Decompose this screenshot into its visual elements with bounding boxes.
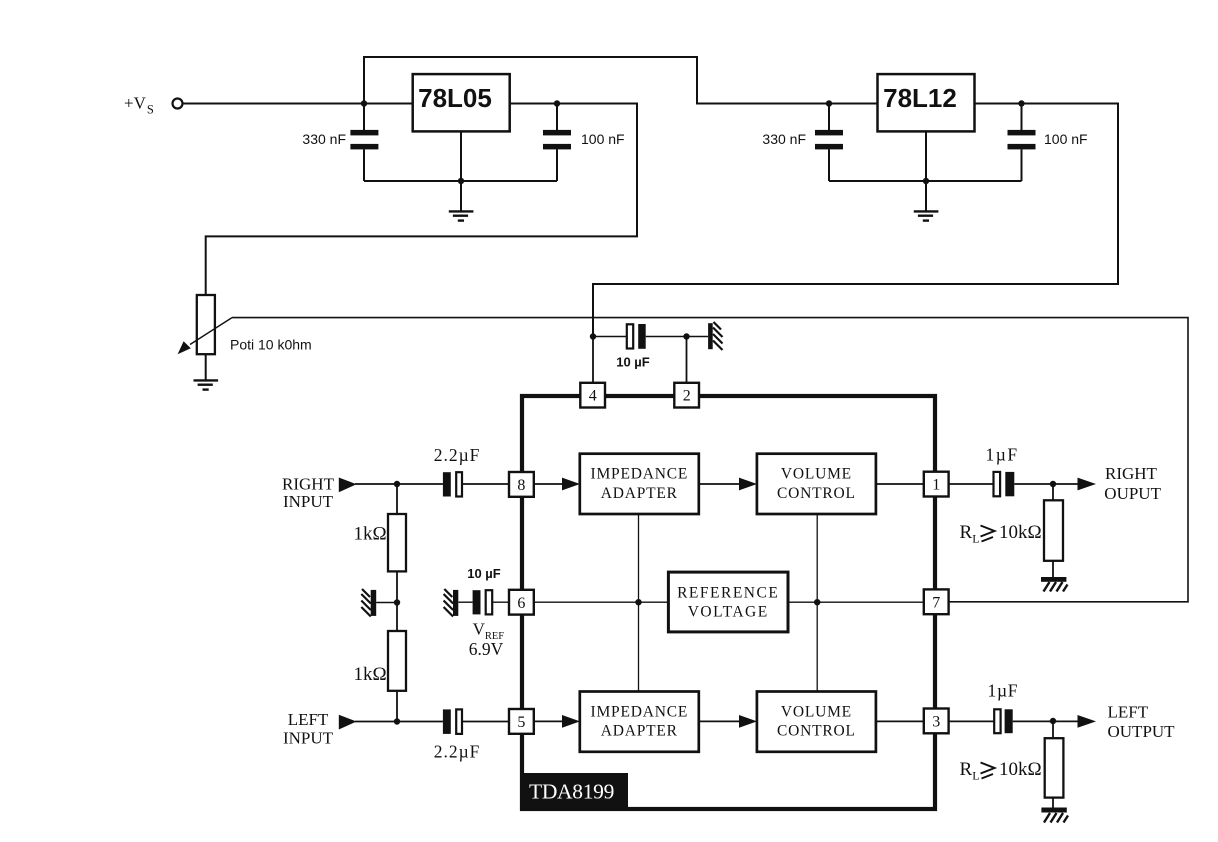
svg-text:ADAPTER: ADAPTER bbox=[601, 485, 678, 502]
svg-text:2.2µF: 2.2µF bbox=[434, 742, 481, 762]
block volume control top bbox=[757, 454, 876, 514]
chassis ground R3 bbox=[1041, 577, 1068, 592]
resistor R1 1k bbox=[388, 484, 406, 571]
wire top loop from input junction over 78L05 to 78L12 input bbox=[364, 57, 878, 104]
node junction right output bbox=[1050, 481, 1056, 487]
svg-text:OUPUT: OUPUT bbox=[1104, 484, 1161, 503]
wire volume control 1 to volume control 2 vertical bbox=[816, 514, 818, 692]
capacitor C4 100nF bbox=[1008, 104, 1036, 182]
svg-text:1kΩ: 1kΩ bbox=[353, 524, 386, 545]
regulator U2 78L12 bbox=[878, 74, 975, 131]
svg-text:1µF: 1µF bbox=[988, 681, 1019, 701]
wire volume control to pin3 bbox=[876, 720, 924, 722]
pin 2 bbox=[674, 383, 699, 408]
wire right input to cap bbox=[355, 483, 443, 485]
node junction left input bbox=[394, 718, 400, 724]
svg-text:2.2µF: 2.2µF bbox=[434, 445, 481, 465]
wire pin8 to impedance adapter arrow bbox=[534, 483, 564, 485]
svg-text:330 nF: 330 nF bbox=[762, 131, 806, 147]
wire chassis ground to cap C8 bbox=[458, 601, 472, 603]
potentiometer P1 wiper arrow bbox=[178, 318, 232, 355]
node junction 100nF left bbox=[554, 100, 560, 106]
node junction pin4 net bbox=[590, 333, 596, 339]
chassis ground R4 bbox=[1041, 808, 1068, 823]
svg-text:RIGHT: RIGHT bbox=[282, 475, 335, 494]
wire pin5 to impedance adapter arrow bbox=[534, 720, 564, 722]
wire cap C8 to pin6 bbox=[492, 601, 509, 603]
svg-text:5: 5 bbox=[517, 714, 525, 731]
capacitor C10 1uF polarized bbox=[994, 709, 1012, 733]
svg-text:4: 4 bbox=[589, 388, 597, 405]
label R4 RL >= 10kOhm bbox=[960, 759, 1042, 783]
capacitor C8 10uF polarized bbox=[473, 590, 493, 614]
svg-text:2: 2 bbox=[683, 388, 691, 405]
svg-text:REFERENCE: REFERENCE bbox=[677, 584, 779, 601]
svg-text:1kΩ: 1kΩ bbox=[353, 664, 386, 685]
label R3 RL >= 10kOhm bbox=[960, 522, 1042, 546]
IC U3 TDA8199 border bbox=[522, 396, 935, 809]
potentiometer P1 body bbox=[197, 295, 215, 354]
arrow left input bbox=[339, 715, 357, 730]
ground U1 bbox=[449, 211, 474, 220]
chassis ground at pin6 cap bbox=[444, 589, 459, 617]
wire R1 to R2 bbox=[396, 571, 398, 631]
svg-text:6: 6 bbox=[517, 595, 525, 612]
resistor R4 load 10k bbox=[1045, 721, 1064, 807]
svg-text:10kΩ: 10kΩ bbox=[999, 522, 1042, 543]
node +VS terminal bbox=[173, 99, 183, 109]
pin 5 bbox=[509, 709, 534, 734]
capacitor C9 1uF polarized bbox=[994, 472, 1015, 496]
svg-text:INPUT: INPUT bbox=[283, 729, 334, 748]
wire cap C10 to left output arrow bbox=[1013, 720, 1079, 722]
svg-text:ADAPTER: ADAPTER bbox=[601, 723, 678, 740]
node junction left output bbox=[1050, 718, 1056, 724]
wire 78L12 ground rail bbox=[829, 180, 1022, 182]
wire impedance adapter 1 to impedance adapter 2 vertical bbox=[638, 514, 640, 692]
svg-text:6.9V: 6.9V bbox=[469, 639, 504, 659]
svg-text:1: 1 bbox=[932, 477, 940, 494]
capacitor C1 330nF bbox=[350, 104, 378, 182]
wire left input to cap bbox=[355, 721, 443, 723]
svg-text:1µF: 1µF bbox=[986, 445, 1019, 465]
svg-text:100 nF: 100 nF bbox=[581, 131, 625, 147]
wire cap C9 to right output arrow bbox=[1014, 483, 1079, 485]
wire 78L05 ground rail bbox=[364, 180, 557, 182]
node junction right input bbox=[394, 481, 400, 487]
wire impedance adapter to volume control arrow bbox=[699, 483, 741, 485]
svg-text:LEFT: LEFT bbox=[1108, 703, 1149, 722]
block impedance adapter bottom bbox=[580, 692, 699, 752]
capacitor C2 100nF bbox=[543, 104, 571, 182]
svg-text:VOLTAGE: VOLTAGE bbox=[688, 604, 769, 621]
node junction rail U2 bbox=[923, 178, 929, 184]
wire poti wiper to pin7 bbox=[232, 318, 1188, 602]
svg-text:LEFT: LEFT bbox=[288, 710, 329, 729]
svg-text:78L05: 78L05 bbox=[418, 83, 492, 113]
node junction ref left bbox=[635, 599, 641, 605]
svg-text:10 µF: 10 µF bbox=[616, 355, 650, 370]
svg-text:7: 7 bbox=[932, 594, 940, 611]
pin 8 bbox=[509, 472, 534, 497]
wire junction to pin4 bbox=[592, 337, 594, 384]
node junction 100nF right bbox=[1018, 100, 1024, 106]
block reference voltage bbox=[668, 572, 788, 632]
wire impedance adapter to volume control arrow bottom bbox=[699, 720, 741, 722]
pin 7 bbox=[924, 589, 949, 614]
regulator U1 78L05 bbox=[413, 74, 510, 131]
capacitor C5 10uF polarized bbox=[627, 324, 646, 349]
svg-text:IMPEDANCE: IMPEDANCE bbox=[590, 703, 688, 720]
arrow left output bbox=[1078, 715, 1097, 728]
wire chassis ground to junction bbox=[376, 602, 397, 604]
wire pin6 to reference voltage bbox=[534, 601, 669, 603]
wire junction to pin2 bbox=[686, 337, 688, 384]
wire reference voltage to pin7 bbox=[788, 601, 924, 603]
svg-text:CONTROL: CONTROL bbox=[777, 485, 856, 502]
wire +VS to 78L05 input bbox=[183, 103, 413, 105]
block volume control bottom bbox=[757, 692, 876, 752]
arrow right input bbox=[339, 478, 357, 493]
pin 4 bbox=[580, 383, 605, 408]
wire junction to cap C5 bbox=[593, 336, 627, 338]
node junction ref right bbox=[814, 599, 820, 605]
resistor R3 load 10k bbox=[1044, 484, 1063, 577]
node junction at 330nF left cap bbox=[361, 100, 367, 106]
arrow right output bbox=[1078, 478, 1097, 491]
wire 78L12 gnd pin bbox=[925, 131, 927, 211]
wire cap C7 to pin5 bbox=[462, 721, 509, 723]
svg-text:330 nF: 330 nF bbox=[302, 131, 346, 147]
svg-text:8: 8 bbox=[517, 477, 525, 494]
wire cap C5 to chassis ground bbox=[646, 336, 708, 338]
node junction R1 R2 bbox=[394, 599, 400, 605]
wire poti bottom to ground bbox=[205, 354, 207, 380]
label TDA8199 bbox=[520, 773, 628, 811]
svg-text:INPUT: INPUT bbox=[283, 492, 334, 511]
block impedance adapter top bbox=[580, 454, 699, 514]
capacitor C7 2.2uF bbox=[443, 709, 462, 734]
svg-text:TDA8199: TDA8199 bbox=[529, 780, 614, 804]
pin 1 bbox=[924, 472, 949, 497]
capacitor C3 330nF bbox=[815, 104, 843, 182]
chassis ground at R1 R2 junction bbox=[361, 589, 376, 617]
wire 78L05 output to poti feed corner bbox=[206, 104, 637, 296]
resistor R2 1k bbox=[388, 631, 406, 691]
ground U2 bbox=[914, 211, 939, 220]
svg-text:VOLUME: VOLUME bbox=[781, 703, 852, 720]
wire R2 to left input node bbox=[396, 691, 398, 722]
capacitor C6 2.2uF bbox=[443, 472, 462, 496]
node junction rail U1 bbox=[458, 178, 464, 184]
svg-text:CONTROL: CONTROL bbox=[777, 723, 856, 740]
svg-text:Poti 10 k0hm: Poti 10 k0hm bbox=[230, 337, 312, 353]
svg-text:VOLUME: VOLUME bbox=[781, 466, 852, 483]
svg-text:10kΩ: 10kΩ bbox=[999, 759, 1042, 780]
svg-text:10 µF: 10 µF bbox=[467, 566, 501, 581]
svg-text:100 nF: 100 nF bbox=[1044, 131, 1088, 147]
svg-text:RIGHT: RIGHT bbox=[1105, 464, 1158, 483]
wire pin1 to cap C9 bbox=[949, 483, 993, 485]
svg-text:78L12: 78L12 bbox=[883, 83, 957, 113]
chassis ground near pin2 bbox=[708, 322, 722, 350]
wire volume control to pin1 bbox=[876, 483, 924, 485]
wire pin3 to cap C10 bbox=[949, 720, 994, 722]
pin 6 bbox=[509, 590, 534, 615]
svg-text:OUTPUT: OUTPUT bbox=[1108, 722, 1176, 741]
svg-text:3: 3 bbox=[932, 714, 940, 731]
wire 78L05 gnd pin bbox=[460, 131, 462, 211]
pin 3 bbox=[924, 709, 949, 734]
node junction pin2 net bbox=[683, 333, 689, 339]
node junction 330nF right cap bbox=[826, 100, 832, 106]
wire cap C6 to pin8 bbox=[462, 483, 509, 485]
wire 78L12 output to pin4 feed bbox=[593, 104, 1118, 337]
ground P1 bbox=[194, 380, 219, 389]
svg-text:IMPEDANCE: IMPEDANCE bbox=[590, 466, 688, 483]
